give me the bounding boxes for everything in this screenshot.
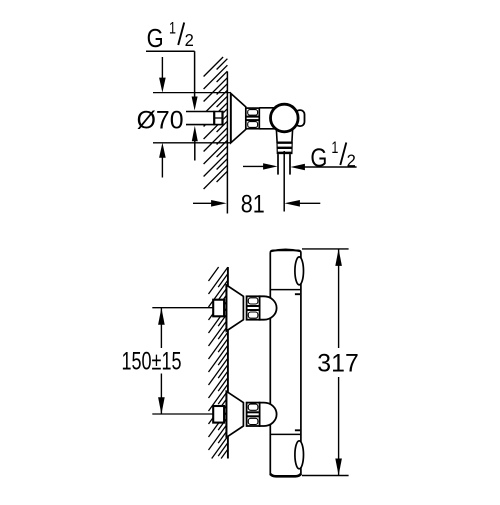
wall section hatch (front view) [209,267,228,459]
dim G1/2 lower arrow (points up at pipe) [192,126,198,142]
wall line (top view), continues as extension line for dim 81 [226,72,228,214]
top escutcheon (front view) [226,285,243,331]
top joint line [270,289,301,291]
317 extension lines [302,248,349,250]
bar top cap edge [271,249,300,251]
handle end cap (right of circle) [296,110,305,126]
top extension line for dim 150 [152,307,224,309]
top dome cap nut [260,296,277,319]
dim G1/2 hose arrows [243,165,264,167]
top seam tick [295,293,300,295]
escutcheon rosette cone (top view) [231,93,246,142]
svg-text:81: 81 [241,191,265,219]
hose connection ribs G1/2 [277,142,292,144]
top in-wall fitting square [213,300,224,317]
bottom hex nut (front view) [247,403,260,426]
shower hose stub [277,154,279,175]
svg-text:317: 317 [317,350,359,378]
bottom end oval knob [295,441,304,469]
317 dimension line [338,249,340,348]
Ø70 extension lines [153,92,231,94]
top end oval knob [295,257,304,285]
hose centerline / extension line for dim 81 [283,151,285,212]
wall section hatch (top view) [204,57,228,189]
bottom seam tick [295,429,300,431]
thermostat bar body [270,250,301,475]
bottom extension line for dim 150 [152,413,224,415]
bar bottom cap edge [270,474,301,476]
bottom in-wall fitting square [213,406,224,423]
outlet elbow (top view) [276,126,293,142]
bottom escutcheon (front view) [226,391,243,437]
bottom joint line [270,433,301,435]
svg-text:G: G [310,143,327,173]
wall line (front view) [227,267,229,459]
svg-text:2: 2 [185,30,194,50]
svg-text:G: G [147,23,164,53]
union nut hex (top view) [246,108,259,129]
top hex nut (front view) [247,296,260,319]
svg-text:1: 1 [169,19,176,37]
svg-text:Ø70: Ø70 [137,106,184,134]
leader line for G1/2 top [146,50,195,52]
svg-text:150±15: 150±15 [122,348,182,376]
svg-text:1: 1 [331,139,338,157]
pipe nipple G1/2 in wall (top view) [186,112,224,125]
bottom dome cap nut [260,403,277,426]
connector sleeve (top view) [259,107,277,109]
Ø70 arrows [161,57,163,78]
